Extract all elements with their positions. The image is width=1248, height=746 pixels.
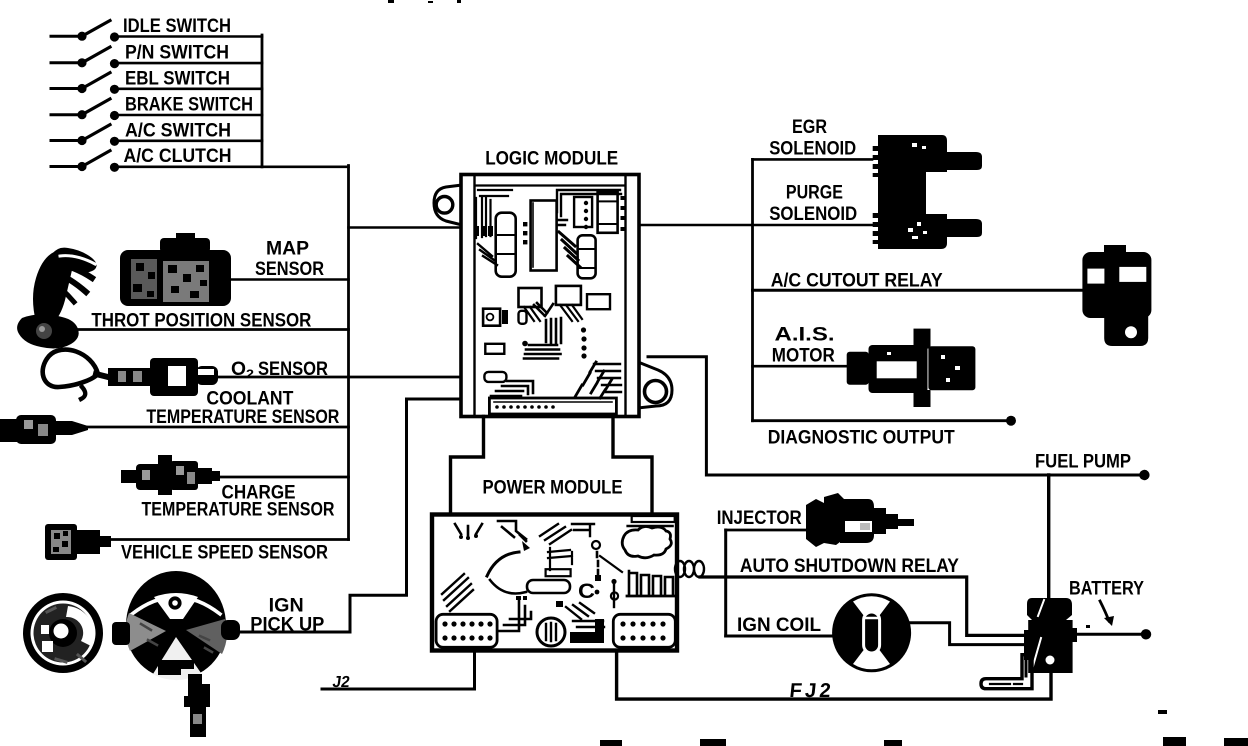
svg-text:BRAKE SWITCH: BRAKE SWITCH <box>125 94 253 116</box>
logic module U1 <box>434 148 672 417</box>
distributor rotor icon <box>23 593 103 673</box>
svg-text:SOLENOID: SOLENOID <box>769 203 857 225</box>
power module round component <box>537 618 565 646</box>
wire: A/C cutout relay feed <box>753 289 1083 292</box>
power module white pill <box>527 580 570 593</box>
wire: throttle position sensor to bus <box>68 328 349 331</box>
MAP sensor icon <box>176 233 195 239</box>
wire: O2 sensor to bus and to logic module <box>215 376 459 379</box>
power module traces above left connector <box>498 601 531 631</box>
sensor: MAP sensor B1 <box>120 233 349 306</box>
wire: p/n switch left lead <box>51 61 79 64</box>
wire: a/c switch to bus <box>115 140 263 143</box>
junction dot <box>110 111 119 120</box>
wire: fuel pump feed from logic module <box>648 357 1142 475</box>
junction dot <box>77 110 86 119</box>
wire: sensor bus vertical <box>347 166 350 540</box>
wire: injector feed <box>726 529 808 532</box>
logic module mounting ear top-left <box>434 185 462 225</box>
wire: idle switch to bus <box>115 35 263 38</box>
sensor: vehicle speed sensor <box>45 524 349 564</box>
wire: purge solenoid from logic module <box>641 224 873 227</box>
svg-text:J2: J2 <box>331 673 351 691</box>
svg-text:MOTOR: MOTOR <box>772 345 835 367</box>
logic module bottom connector strip <box>489 398 616 414</box>
switch: idle switch S1 <box>51 15 262 42</box>
wire: coolant temperature sensor to bus <box>88 426 349 429</box>
distributor left nipple <box>112 622 130 645</box>
power module case <box>432 515 677 651</box>
wire: ebl switch left lead <box>51 87 79 90</box>
throttle position sensor icon <box>17 314 79 348</box>
power module left connector block <box>436 614 497 647</box>
power module trace hatch center-bottom <box>566 603 604 627</box>
distributor right nipple <box>221 620 240 640</box>
svg-text:P/N SWITCH: P/N SWITCH <box>125 42 229 64</box>
svg-text:A/C SWITCH: A/C SWITCH <box>125 119 231 141</box>
battery hold-down bracket <box>981 655 1032 689</box>
logic module traces top-right <box>557 190 621 225</box>
power module small rect center <box>546 569 571 576</box>
power module top-left tick marks <box>455 524 482 536</box>
scan artifacts top edge <box>388 0 461 3</box>
ignition coil icon <box>832 593 911 672</box>
wire: ign coil to battery lower path <box>910 623 1023 645</box>
wire: J2 lead from power module <box>322 651 475 689</box>
charge temperature sensor icon <box>121 470 139 483</box>
junction dot <box>110 32 119 41</box>
power module top-right thin bars <box>632 516 675 522</box>
wire: EGR solenoid feed <box>753 158 873 161</box>
switch blade <box>82 151 110 167</box>
junction dot <box>77 58 86 67</box>
wire: logic module to power module right <box>613 417 652 515</box>
wire: p/n switch to bus <box>115 62 263 65</box>
A/C cutout relay icon <box>1082 245 1151 346</box>
distributor top triangle window <box>154 593 198 619</box>
svg-text:TEMPERATURE SENSOR: TEMPERATURE SENSOR <box>146 406 339 428</box>
wire: a/c clutch row to sensor bus corner <box>115 166 349 169</box>
battery label arrow <box>1100 601 1109 621</box>
distributor cap dome <box>126 571 226 625</box>
logic module chip dots <box>474 226 493 236</box>
svg-text:C: C <box>578 580 595 603</box>
distributor cap gap <box>132 597 220 614</box>
sensor: coolant temperature sensor <box>0 388 349 445</box>
logic module traces bottom-left <box>491 381 533 396</box>
junction dot <box>77 136 86 145</box>
wire: auto shutdown relay <box>700 577 1028 635</box>
power module squiggle top <box>498 521 526 541</box>
wire: ebl switch to bus <box>115 88 263 91</box>
wire: FJ2 run power module to battery <box>617 651 1051 699</box>
switch blade <box>82 47 110 63</box>
svg-text:INJECTOR: INJECTOR <box>717 507 802 529</box>
power module comb coil <box>629 571 673 594</box>
svg-text:PICK UP: PICK UP <box>250 614 324 636</box>
wire: diagnostic output <box>753 419 1009 422</box>
switch blade <box>82 21 110 37</box>
diagnostic output terminal dot <box>1006 416 1016 426</box>
wire: MAP sensor to bus <box>230 278 349 281</box>
power module angle trace group center <box>548 548 572 570</box>
junction dot <box>77 32 86 41</box>
distributor stem <box>188 674 210 696</box>
svg-text:IGN COIL: IGN COIL <box>737 614 821 636</box>
svg-text:2: 2 <box>246 367 254 381</box>
wire: bus to logic module left <box>349 226 462 229</box>
logic module small square with circle <box>483 309 500 326</box>
logic module dot column C <box>581 327 586 332</box>
switch: P/N switch S2 <box>51 42 262 69</box>
distributor left wedge <box>126 613 166 651</box>
EGR and purge solenoid assembly icon <box>873 135 982 249</box>
logic module trace bundle center <box>546 318 561 343</box>
switch blade <box>82 73 110 89</box>
svg-text:BATTERY: BATTERY <box>1069 578 1144 600</box>
logic module traces bottom-right hatch <box>575 362 612 398</box>
svg-text:FJ2: FJ2 <box>788 680 834 702</box>
switch: A/C clutch S6 <box>51 145 349 172</box>
svg-text:POWER MODULE: POWER MODULE <box>483 477 623 499</box>
logic module IC2 big <box>531 201 557 271</box>
logic module pcb traces top-left <box>476 190 512 238</box>
svg-text:PURGE: PURGE <box>786 182 843 204</box>
power module diagonal from C <box>600 556 622 572</box>
wire: brake switch left lead <box>51 113 79 116</box>
svg-text:SENSOR: SENSOR <box>255 258 324 280</box>
wire: vehicle speed sensor to bus <box>100 538 349 541</box>
coolant temperature sensor icon <box>0 419 18 442</box>
power module U2 <box>432 515 677 651</box>
wire: right distribution bus vertical <box>751 159 754 420</box>
junction dot <box>77 162 86 171</box>
junction dot <box>110 137 119 146</box>
scan artifacts bottom edge (cropped text row) <box>600 737 1248 746</box>
junction dot <box>110 163 119 172</box>
switch: EBL switch S3 <box>51 67 262 94</box>
power module traces top-center <box>540 524 594 544</box>
wire: switch bus vertical <box>261 35 264 167</box>
switch: A/C switch S5 <box>51 119 262 146</box>
distributor bottom wedge <box>153 637 201 680</box>
wire: ign pick up to power module path <box>238 399 461 632</box>
distributor body <box>126 579 226 679</box>
logic module IC1 tall rounded <box>496 213 516 277</box>
logic module small rect left1 <box>485 344 504 354</box>
svg-text:SENSOR: SENSOR <box>258 358 328 380</box>
wire: battery feed down from fuel pump line <box>1047 475 1050 598</box>
logic module small rect left2 <box>484 372 506 382</box>
svg-text:IDLE SWITCH: IDLE SWITCH <box>123 15 231 37</box>
vehicle speed sensor icon <box>45 524 77 560</box>
logic module IC3 <box>574 197 592 227</box>
wire: ign coil feed <box>726 635 833 638</box>
sensor: O2 sensor <box>43 350 459 399</box>
logic module dot column B <box>584 201 588 205</box>
junction dot <box>110 59 119 68</box>
svg-text:EGR: EGR <box>792 116 827 138</box>
wire: A.I.S. motor feed <box>753 365 848 368</box>
power module dashed column with O <box>592 541 600 549</box>
svg-text:SOLENOID: SOLENOID <box>769 137 856 159</box>
wire: charge temperature sensor to bus <box>219 476 349 479</box>
wire: brake switch to bus <box>115 114 263 117</box>
switch: brake switch S4 <box>51 94 262 121</box>
injector icon <box>806 493 914 547</box>
coil symbol: power module to auto shutdown feed <box>675 561 704 577</box>
svg-text:THROT POSITION SENSOR: THROT POSITION SENSOR <box>91 310 311 332</box>
distributor texture flecks <box>141 624 212 652</box>
svg-text:MAP: MAP <box>266 238 309 260</box>
svg-text:O: O <box>231 358 246 380</box>
logic module tiny pill <box>519 311 527 324</box>
fuel pump terminal dot <box>1139 470 1149 480</box>
logic module IC5 <box>578 235 596 278</box>
A.I.S. motor icon <box>847 329 976 407</box>
wire: battery positive lead with terminal dot <box>1072 633 1143 636</box>
wire: logic module to power module left <box>451 417 484 515</box>
logic module right edge dot column <box>621 196 625 200</box>
power module right connector block <box>613 614 675 647</box>
svg-text:A/C CUTOUT RELAY: A/C CUTOUT RELAY <box>771 270 943 292</box>
power module vertical with dot <box>613 583 615 607</box>
logic module mid rect row <box>519 288 542 307</box>
junction dot <box>77 84 86 93</box>
sensor: throttle position sensor <box>17 248 348 349</box>
svg-text:EBL SWITCH: EBL SWITCH <box>125 67 230 89</box>
power module blob top-right <box>622 526 671 557</box>
logic module IC4 <box>598 192 618 233</box>
wire: a/c switch left lead <box>51 139 79 142</box>
power module bottom bar <box>570 619 604 643</box>
svg-text:DIAGNOSTIC OUTPUT: DIAGNOSTIC OUTPUT <box>768 427 955 449</box>
wire: ign coil lead down to bracket <box>1025 646 1028 676</box>
sensor: charge temperature sensor <box>121 455 349 521</box>
wire: a/c clutch left lead <box>51 165 79 168</box>
battery terminal icon <box>1024 598 1077 673</box>
svg-text:A/C CLUTCH: A/C CLUTCH <box>124 145 232 167</box>
logic module outer case <box>461 175 639 417</box>
logic module inner frame lines <box>473 176 475 415</box>
logic module mounting ear bottom-right <box>638 362 672 408</box>
distributor right wedge <box>186 619 227 654</box>
power module hatch left <box>442 574 473 611</box>
svg-text:TEMPERATURE SENSOR: TEMPERATURE SENSOR <box>142 499 335 521</box>
scan artifact dot near battery <box>1086 625 1090 628</box>
svg-text:VEHICLE SPEED SENSOR: VEHICLE SPEED SENSOR <box>121 542 328 564</box>
O2 sensor icon <box>43 350 98 388</box>
svg-text:FUEL PUMP: FUEL PUMP <box>1035 451 1131 473</box>
junction dot <box>110 85 119 94</box>
svg-text:LOGIC MODULE: LOGIC MODULE <box>485 148 618 170</box>
svg-text:AUTO SHUTDOWN RELAY: AUTO SHUTDOWN RELAY <box>740 555 959 577</box>
wire: injector bus vertical <box>724 530 727 636</box>
logic module dot column A <box>523 222 527 226</box>
distributor: ignition pick up <box>112 399 461 737</box>
switch blade <box>82 125 110 141</box>
switch blade <box>82 99 110 115</box>
power module arc curve <box>487 552 519 576</box>
svg-text:A.I.S.: A.I.S. <box>775 323 835 345</box>
wire: idle switch left lead <box>51 35 79 38</box>
